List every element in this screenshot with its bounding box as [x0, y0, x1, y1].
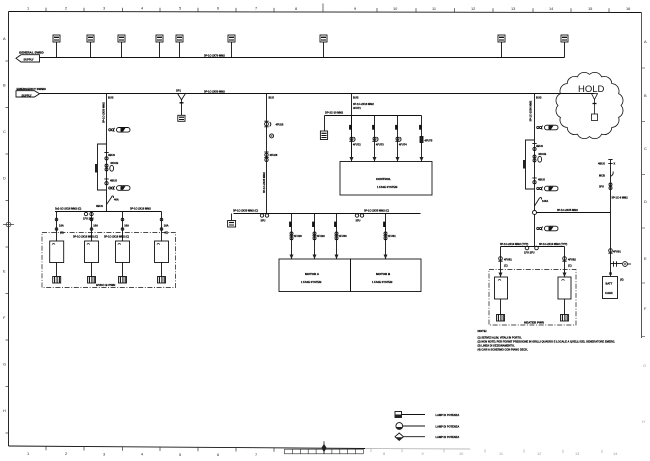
svg-text:B: B: [644, 93, 647, 98]
contactor: [533, 152, 546, 162]
motor box B: [351, 259, 422, 292]
svg-text:3BUS: 3BUS: [96, 204, 103, 208]
legend diamond symbol: [395, 433, 459, 440]
spare fuse boxes on bus A: [53, 35, 568, 58]
svg-text:D: D: [3, 176, 6, 181]
svg-text:5: 5: [179, 6, 181, 11]
sub-bus M wire: [234, 213, 421, 215]
svg-text:16: 16: [626, 6, 630, 11]
svg-text:BUS: BUS: [353, 96, 359, 100]
fuse box E9: [561, 35, 568, 58]
drop wire with funnel: [178, 94, 186, 100]
charger 3: [116, 241, 130, 283]
ctrl feeder 4: [419, 116, 433, 162]
svg-text:MCB: MCB: [599, 173, 605, 177]
svg-text:40A: 40A: [114, 198, 119, 202]
legend square symbol: [395, 412, 459, 418]
svg-text:SP1: SP1: [176, 89, 181, 93]
svg-text:MOTOR B: MOTOR B: [376, 272, 391, 276]
fuse with pilot lamp: [109, 128, 130, 133]
svg-text:H: H: [642, 419, 645, 424]
svg-text:7: 7: [255, 6, 257, 11]
drawout contacts: [524, 246, 538, 254]
svg-text:16A: 16A: [93, 224, 98, 228]
cloud future feeder: [592, 94, 598, 121]
svg-text:3P-1C-2X35 MM2: 3P-1C-2X35 MM2: [262, 172, 266, 193]
svg-text:BUS: BUS: [108, 96, 114, 100]
svg-text:8: 8: [295, 6, 297, 11]
svg-text:3P-1C-2X16 MM2 (C): 3P-1C-2X16 MM2 (C): [104, 235, 129, 239]
svg-text:12: 12: [537, 451, 541, 456]
bottom ruler: [46, 446, 274, 452]
svg-text:A: A: [644, 39, 647, 44]
drawout contacts: [83, 212, 94, 220]
charger 1: [50, 241, 64, 283]
svg-text:C: C: [3, 129, 6, 134]
motor box A: [279, 259, 351, 292]
svg-text:4FU29: 4FU29: [317, 234, 325, 238]
fuse contact: [264, 121, 284, 127]
svg-text:4FU25: 4FU25: [276, 122, 284, 126]
svg-text:11: 11: [432, 6, 436, 11]
sub-bus R wire: [501, 246, 565, 248]
svg-text:3: 3: [103, 6, 105, 11]
svg-text:3FU: 3FU: [599, 184, 604, 188]
contact a: [104, 153, 115, 160]
svg-text:4FU91: 4FU91: [613, 249, 621, 253]
control box: [340, 162, 432, 196]
ctrl feeder 2: [372, 116, 384, 162]
svg-text:1FU 2FU: 1FU 2FU: [524, 251, 535, 255]
svg-text:16A: 16A: [124, 224, 129, 228]
svg-text:7: 7: [255, 452, 257, 457]
svg-text:E: E: [644, 256, 647, 261]
svg-text:4FU26: 4FU26: [270, 153, 278, 157]
svg-text:4FU74: 4FU74: [399, 142, 407, 146]
svg-text:LAMP DI POTENZA: LAMP DI POTENZA: [436, 435, 460, 439]
contact b: [532, 178, 545, 184]
svg-text:4FU28: 4FU28: [294, 234, 302, 238]
svg-text:HVDC B PWR: HVDC B PWR: [96, 283, 116, 287]
svg-text:4BUS: 4BUS: [538, 178, 545, 182]
top ruler numbers: [27, 5, 630, 11]
svg-text:E: E: [3, 269, 6, 274]
fuse with pilot: [537, 125, 558, 130]
svg-text:(C): (C): [568, 264, 572, 268]
dash-dot enclosure HVDC: [42, 233, 176, 288]
svg-text:5: 5: [179, 452, 181, 457]
svg-text:11: 11: [499, 451, 503, 456]
drawout contacts b: [355, 214, 363, 223]
svg-text:8: 8: [383, 451, 385, 456]
bus A wire: [40, 57, 565, 59]
svg-text:4FU31: 4FU31: [388, 234, 396, 238]
svg-text:EMERGENCY SWBD: EMERGENCY SWBD: [17, 87, 47, 91]
svg-text:3P-1C-2X35 MM2 (C): 3P-1C-2X35 MM2 (C): [364, 209, 389, 213]
svg-text:SUPPLY: SUPPLY: [22, 93, 32, 97]
contact a: [532, 144, 543, 151]
source flag EMERGENCY SWBD: [16, 87, 47, 97]
svg-text:1 FASE SYSTEM: 1 FASE SYSTEM: [372, 280, 392, 284]
svg-text:DP-2C-10 MM2: DP-2C-10 MM2: [325, 111, 344, 115]
heater tx 1: [495, 277, 508, 321]
left end earthing box: [228, 214, 236, 228]
svg-text:G: G: [3, 362, 6, 367]
tie wire to battery charger branch: [535, 212, 611, 214]
svg-text:MOTOR A: MOTOR A: [305, 272, 320, 276]
svg-text:12: 12: [471, 6, 475, 11]
heater feeder 1: [498, 247, 512, 278]
svg-text:R: R: [271, 134, 273, 138]
svg-text:A: A: [3, 36, 6, 41]
svg-text:100A: 100A: [542, 199, 548, 203]
svg-text:MCCB: MCCB: [111, 161, 119, 165]
svg-text:3P-1C-2X16 MM2 (C): 3P-1C-2X16 MM2 (C): [73, 235, 98, 239]
control sub-bus wire: [325, 115, 422, 117]
hvdc feeder 3: [104, 212, 129, 242]
right ruler letters and ticks: [642, 68, 646, 337]
wire: [610, 160, 612, 277]
source flag GENERAL SWBD: [16, 51, 44, 62]
breaker hook: [599, 172, 613, 178]
heater tx 2: [558, 277, 571, 321]
hvdc feeder 1: [55, 212, 64, 242]
contact: [608, 249, 621, 254]
svg-text:3x1-1C-2X16 MM2 (C): 3x1-1C-2X16 MM2 (C): [55, 207, 81, 211]
svg-text:4FU73: 4FU73: [376, 142, 384, 146]
svg-text:2: 2: [65, 451, 67, 456]
svg-text:1 FASE SYSTEM: 1 FASE SYSTEM: [301, 280, 321, 284]
motor feeder 1: [289, 214, 302, 260]
wire: [106, 94, 108, 212]
svg-text:1: 1: [27, 451, 29, 456]
contact b: [104, 179, 117, 185]
svg-text:1: 1: [27, 5, 29, 10]
svg-text:4FU75: 4FU75: [425, 139, 433, 143]
battery charger box: [603, 272, 624, 298]
svg-text:3P-1C-2X70 MM2: 3P-1C-2X70 MM2: [204, 54, 225, 58]
disconnect switch: [535, 198, 549, 207]
left battery tap: [320, 116, 327, 140]
svg-text:4BUS: 4BUS: [108, 153, 115, 157]
dash-dot enclosure HEATER: [489, 270, 576, 326]
svg-text:3P-1C-2X16 MM2: 3P-1C-2X16 MM2: [130, 207, 151, 211]
fuse box E6: [228, 35, 235, 58]
relay symbol: [270, 134, 274, 138]
svg-text:3P-1C-2X10 MM2 (TYP): 3P-1C-2X10 MM2 (TYP): [539, 242, 567, 246]
fuse box E5: [176, 35, 183, 58]
svg-text:4FU72: 4FU72: [353, 142, 361, 146]
svg-text:LAMP DI POTENZA: LAMP DI POTENZA: [436, 413, 460, 417]
svg-text:3P-1C-6 MM2: 3P-1C-6 MM2: [612, 196, 629, 200]
svg-text:(X): (X): [620, 278, 624, 282]
svg-text:G: G: [643, 363, 646, 368]
svg-text:16A: 16A: [59, 224, 64, 228]
battery plus link: [611, 261, 632, 266]
svg-text:1 FASE SYSTEM: 1 FASE SYSTEM: [377, 185, 397, 189]
svg-text:4FU71: 4FU71: [353, 106, 361, 110]
fuse 2: [537, 186, 558, 191]
ctrl feeder 3: [395, 116, 407, 162]
svg-text:X: X: [614, 161, 616, 165]
disconnect switch: [96, 196, 119, 208]
fuse box E3: [118, 35, 125, 58]
fuse box E1: [53, 35, 60, 58]
svg-text:3P-1C-2X16 MM2: 3P-1C-2X16 MM2: [353, 102, 374, 106]
fuse 3: [537, 226, 558, 231]
bus B wire: [40, 93, 595, 95]
fuse box E7: [320, 35, 327, 58]
left centre mark: [3, 222, 14, 227]
motor feeder 3: [334, 214, 347, 260]
charger 4: [155, 241, 169, 283]
svg-text:LAMP DI POTENZA: LAMP DI POTENZA: [436, 425, 460, 429]
svg-text:3P-1C-2X50 MM2: 3P-1C-2X50 MM2: [102, 102, 106, 123]
left ruler letters and ticks: [6, 61, 9, 433]
svg-text:B: B: [3, 83, 6, 88]
svg-text:CONTROL: CONTROL: [376, 177, 391, 181]
legend circle symbol: [396, 423, 459, 430]
svg-text:(1) SERVIZI ALIM. VITALI IN PO: (1) SERVIZI ALIM. VITALI IN PORTO.: [478, 336, 523, 340]
drawout contacts a: [260, 214, 268, 223]
svg-text:3FU: 3FU: [356, 218, 361, 222]
svg-text:4FU82: 4FU82: [568, 257, 576, 261]
breaker cubicle bracket: [95, 144, 107, 190]
motor feeder 2: [312, 214, 325, 260]
terminal: [598, 160, 616, 166]
svg-text:H: H: [3, 408, 6, 413]
svg-text:BATT: BATT: [606, 282, 613, 286]
load box: [178, 115, 185, 121]
svg-text:9: 9: [422, 451, 424, 456]
svg-text:3P-1C-2X35 MM2 (C): 3P-1C-2X35 MM2 (C): [233, 209, 258, 213]
svg-text:3: 3: [103, 451, 105, 456]
wire: [266, 94, 268, 214]
drawout contact: [599, 183, 612, 190]
svg-text:GENERAL SWBD: GENERAL SWBD: [19, 51, 44, 55]
svg-text:3P-1C-2X35 MM2: 3P-1C-2X35 MM2: [557, 208, 578, 212]
svg-text:6: 6: [217, 6, 219, 11]
svg-text:SUPPLY: SUPPLY: [24, 57, 34, 61]
motor feeder 4: [383, 214, 396, 260]
svg-text:3P-1C-2X10 MM2 (TYP): 3P-1C-2X10 MM2 (TYP): [500, 242, 528, 246]
bottom scale bar: [285, 449, 364, 454]
svg-text:C: C: [644, 146, 647, 151]
svg-text:13: 13: [575, 451, 579, 456]
wire: [534, 94, 536, 247]
fuse 2: [109, 186, 130, 191]
hvdc feeder 4: [160, 212, 168, 242]
breaker cubicle bracket: [523, 140, 535, 189]
svg-text:MCCB: MCCB: [539, 152, 547, 156]
svg-text:2: 2: [65, 6, 67, 11]
svg-text:(2) NON NOTE: PER FORNIT PRESS: (2) NON NOTE: PER FORNIT PRESSIONE IN GR…: [478, 340, 616, 344]
svg-text:(3) LINEA DI SEZIONAMENTO.: (3) LINEA DI SEZIONAMENTO.: [478, 344, 515, 348]
fuse box E4: [156, 35, 163, 58]
svg-text:BUS: BUS: [269, 96, 275, 100]
sub-bus L wire: [55, 211, 162, 213]
ctrl feeder 1: [349, 116, 361, 162]
top ruler ticks: [46, 4, 609, 13]
svg-text:(C): (C): [504, 264, 508, 268]
fuse box E8: [498, 35, 505, 58]
bottom centre mark: [322, 441, 326, 454]
svg-text:3P-1C-2X50 MM2: 3P-1C-2X50 MM2: [204, 90, 225, 94]
svg-text:9: 9: [354, 6, 356, 11]
charger 2: [85, 241, 99, 283]
tie node: [533, 208, 579, 215]
svg-text:16A: 16A: [164, 224, 169, 228]
svg-text:3FU: 3FU: [261, 218, 266, 222]
svg-text:CHGR: CHGR: [605, 291, 613, 295]
svg-text:4BUS: 4BUS: [110, 179, 117, 183]
svg-text:(4) CAVI A SCHERMO CON PIANO D: (4) CAVI A SCHERMO CON PIANO DECK.: [478, 348, 529, 352]
fuse box E2: [87, 35, 94, 58]
hvdc feeder 2: [73, 212, 98, 242]
wire: [351, 94, 353, 162]
svg-text:4BUS: 4BUS: [598, 161, 605, 165]
svg-text:4BUS: 4BUS: [536, 144, 543, 148]
contact: [264, 152, 278, 162]
svg-text:15: 15: [588, 6, 592, 11]
svg-text:BUS: BUS: [536, 96, 542, 100]
svg-text:4FU81: 4FU81: [504, 257, 512, 261]
svg-text:6: 6: [217, 452, 219, 457]
svg-text:NOTE:: NOTE:: [478, 329, 487, 333]
svg-text:13: 13: [511, 6, 515, 11]
svg-text:HEATER PWR: HEATER PWR: [524, 321, 545, 325]
heater feeder 2: [562, 247, 576, 278]
svg-text:3P-1C-2X50 MM2: 3P-1C-2X50 MM2: [528, 100, 532, 121]
svg-text:D: D: [644, 199, 647, 204]
contactor: [105, 161, 118, 171]
HOLD cloud: [556, 72, 623, 138]
svg-text:4FU30: 4FU30: [339, 234, 347, 238]
